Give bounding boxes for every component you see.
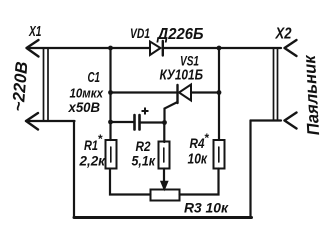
connector X1 bottom arrow [26,113,38,130]
connector X1 top arrow [27,40,39,57]
wire bottom outer rail [74,216,252,219]
connector X2 bottom fork [285,113,297,129]
svg-text:R1: R1 [84,137,98,153]
svg-text:VS1: VS1 [180,54,199,69]
svg-text:10мкx: 10мкx [70,86,104,101]
capacitor C1 [111,115,165,130]
svg-text:X1: X1 [28,23,41,40]
svg-text:R3 10к: R3 10к [184,200,229,216]
svg-text:x50В: x50В [68,100,101,115]
wire X2 bottom [251,119,282,121]
svg-text:Д226Б: Д226Б [156,26,204,43]
wire R3 right to R4 bottom [180,169,219,195]
junction C1 left [108,120,113,125]
svg-text:2,2к: 2,2к [79,153,106,169]
junction node B [217,46,222,51]
svg-text:КУ101Б: КУ101Б [160,68,204,84]
potentiometer R3 [151,190,180,201]
wire left outer vertical [73,121,75,218]
wire gate node to R2 top [163,123,165,143]
resistor R1 [106,140,117,169]
connector X1 double bar [44,48,49,121]
thyristor VS1 [111,85,220,125]
wire R2 bottom to R3 wiper [163,169,165,183]
resistor R4 [214,140,225,169]
wire left mid vertical (node A down to R1) [109,48,111,140]
wire top rail mid (diode to X2) [163,47,281,49]
wire top rail left (X1 to diode) [27,47,150,49]
svg-text:*: * [204,131,210,145]
svg-text:C1: C1 [88,70,101,86]
junction thyristor cathode [108,90,113,95]
junction gate node [162,120,167,125]
svg-text:R4: R4 [190,135,205,151]
svg-text:VD1: VD1 [130,25,150,41]
connector X2 double bar [274,48,278,121]
svg-text:X2: X2 [275,26,292,43]
wire R1 bottom to R3 left [110,169,151,195]
svg-text:10к: 10к [188,152,208,168]
svg-text:R2: R2 [136,138,151,154]
resistor R2 [159,142,170,169]
R3 wiper arrow [161,182,168,190]
svg-text:*: * [98,132,104,146]
connector X2 top fork [285,40,297,56]
svg-text:~220В: ~220В [9,61,32,112]
svg-text:5,1к: 5,1к [132,154,157,169]
junction node A [108,46,113,51]
label C1 plus [142,108,149,115]
junction thyristor anode [217,90,222,95]
wire right outer vertical [249,121,251,218]
wire right vertical (node B down to R4) [218,48,220,140]
wire X1 bottom [26,120,75,122]
svg-text:Паяльник: Паяльник [300,54,323,136]
diode VD1 [150,41,163,56]
